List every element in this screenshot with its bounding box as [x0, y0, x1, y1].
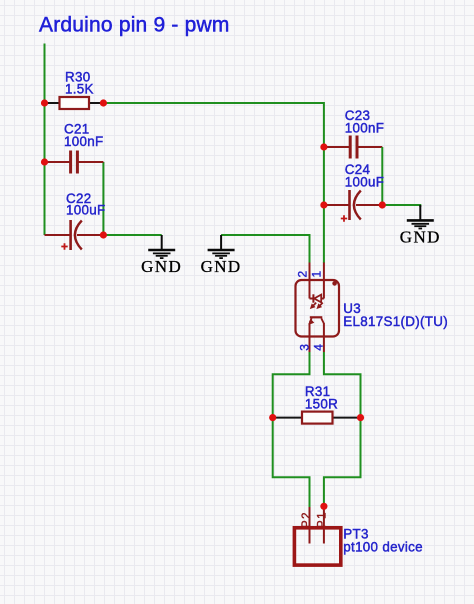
- light arrow a: [311, 303, 317, 309]
- resistor R31: [273, 384, 361, 423]
- svg-text:pt100 device: pt100 device: [343, 539, 423, 554]
- svg-text:100nF: 100nF: [64, 134, 103, 149]
- pin P2: [309, 507, 311, 544]
- pin 3 stub: [309, 323, 311, 352]
- body: [296, 280, 340, 337]
- resistor R30: [45, 69, 104, 109]
- pin 2 stub: [309, 263, 311, 299]
- svg-text:4: 4: [312, 344, 326, 351]
- junction dot R31 left: [269, 414, 276, 421]
- svg-text:GND: GND: [400, 227, 441, 246]
- svg-text:100uF: 100uF: [345, 174, 384, 189]
- svg-text:GND: GND: [141, 257, 182, 276]
- junction dot C24 left: [320, 201, 327, 208]
- svg-text:100uF: 100uF: [66, 202, 105, 217]
- LED: cathode wire: [310, 298, 314, 300]
- wire: left vertical rail from top to C22: [44, 44, 46, 236]
- optocoupler U3: [295, 263, 448, 353]
- body box: [294, 528, 340, 565]
- pin-1 marker dot: [332, 281, 337, 286]
- transistor emitter with arrow to pin 3: [310, 318, 312, 323]
- wire: opto pin4 down and right to R31 right rail: [324, 352, 361, 418]
- transistor collector to pin 4: [321, 318, 324, 323]
- svg-text:1.5K: 1.5K: [65, 81, 94, 96]
- transistor base bar: [310, 316, 323, 318]
- junction dot R30 left: [41, 99, 48, 106]
- wire: vertical rail x=324 from R30 rail down to opto pin1: [323, 102, 325, 263]
- pin 1 stub: [323, 263, 325, 299]
- ground GND3: [400, 205, 441, 246]
- wire: R31 right rail down to PT3 P1: [324, 418, 361, 507]
- svg-text:2: 2: [295, 271, 309, 278]
- wire: C21 right vertical down to C22 output: [102, 162, 104, 235]
- junction dot R31 right: [357, 414, 364, 421]
- svg-text:GND: GND: [201, 257, 242, 276]
- LED triangle: [314, 295, 321, 303]
- light arrow b: [317, 303, 323, 309]
- wire: C23 right vertical down to C24 output: [381, 147, 383, 205]
- wire: C24 output to GND3: [382, 205, 420, 207]
- svg-text:EL817S1(D)(TU): EL817S1(D)(TU): [343, 314, 448, 329]
- svg-text:100nF: 100nF: [345, 120, 384, 135]
- svg-text:150R: 150R: [305, 396, 338, 411]
- wire: R31 left rail down to PT3 P2: [273, 418, 310, 507]
- capacitor C21: [45, 122, 104, 174]
- capacitor C23: [324, 108, 384, 159]
- wire: opto pin3 down and left to R31 left rail: [273, 352, 310, 418]
- junction dot R30 right: [100, 99, 107, 106]
- capacitor C22 (polarized): [45, 191, 106, 250]
- junction dot C24 right: [379, 201, 386, 208]
- LED cathode bar: [312, 294, 314, 302]
- wire: C22 output horizontal to GND1: [103, 234, 161, 236]
- junction dot C23 left: [320, 143, 327, 150]
- LED: anode wire: [321, 298, 324, 300]
- wire: R30 output rail horizontal y=103: [103, 102, 324, 104]
- pin P1: [323, 507, 325, 544]
- junction dot P1: [320, 503, 327, 510]
- capacitor C24 (polarized): [324, 162, 384, 222]
- svg-text:3: 3: [297, 344, 311, 351]
- pin 4 stub: [323, 323, 325, 352]
- connector PT3 (pt100 device): [294, 507, 422, 565]
- ground GND1: [141, 235, 182, 276]
- ground GND2: [201, 235, 242, 276]
- junction dot C21 left: [41, 158, 48, 165]
- svg-text:1: 1: [310, 271, 324, 278]
- junction dot C22 right: [100, 231, 107, 238]
- wire: GND2 horizontal to opto pin2 vertical: [221, 235, 309, 263]
- svg-text:Arduino pin 9 - pwm: Arduino pin 9 - pwm: [39, 14, 230, 37]
- svg-text:P1: P1: [316, 511, 328, 528]
- svg-text:P2: P2: [301, 511, 313, 528]
